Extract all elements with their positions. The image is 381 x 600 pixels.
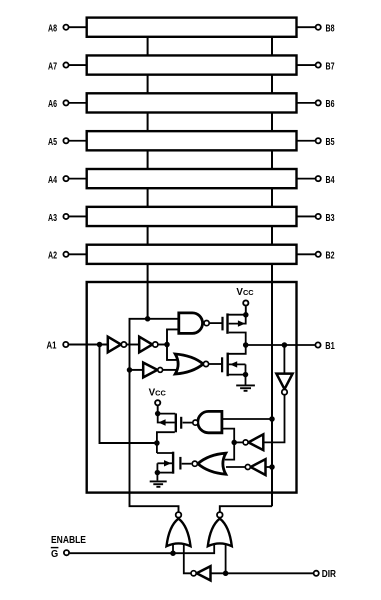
UPPER GATE PAIR (B1 drive)	[209, 323, 222, 364]
terminal B7	[316, 62, 321, 67]
transistor Q4 bulk lead	[157, 462, 172, 464]
transistor Q2 drain lead	[229, 345, 246, 354]
TRANSISTOR Q4 (NMOS to GND, A1 side, mirrored)	[157, 452, 181, 481]
inverter U4 (B1 tap, pointing down)	[264, 345, 293, 442]
junction U6 output node	[231, 440, 237, 446]
wire A6 stub	[69, 102, 86, 104]
nor U2	[175, 354, 208, 374]
wire inter-buffer A1a-A1b	[127, 344, 139, 346]
terminal DIR	[314, 571, 319, 576]
inverter U9 (DIR, points left)	[191, 566, 211, 580]
wire left enable line (NAND top input / inverter feed)	[130, 319, 180, 512]
nor U7 (mirrored, points left)	[192, 453, 226, 474]
terminal A8	[63, 25, 68, 30]
wire NAND U5 top input	[222, 418, 272, 420]
terminal B5	[316, 138, 321, 143]
channel box A6-B6	[87, 93, 297, 112]
inverter U6 (points left)	[243, 434, 263, 450]
wire NOR U7 output to Q4 gate	[182, 463, 192, 465]
svg-text:A6: A6	[48, 99, 57, 110]
junction B1 output node	[243, 342, 249, 348]
LOWER GATE PAIR (A1 drive)	[182, 419, 272, 467]
transistor Q1 bulk arrow	[238, 320, 245, 326]
wire B8 stub	[297, 26, 315, 28]
svg-text:B1: B1	[325, 341, 335, 352]
transistor Q3 gate bar	[180, 417, 182, 429]
terminal A5	[63, 138, 68, 143]
transistor Q2 bulk arrow	[230, 361, 237, 367]
svg-text:ENABLE: ENABLE	[51, 535, 86, 546]
transistor Q4 gate bar	[179, 457, 181, 470]
inverter U4 body	[276, 374, 292, 390]
wire NOR G2 right input stub	[225, 545, 227, 573]
terminal A4	[63, 176, 68, 181]
transistor Q2 gate bar	[221, 357, 223, 372]
TRANSISTOR Q3 (PMOS to VCC, A1 side, mirrored)	[157, 413, 181, 453]
INTERNAL WIRES	[69, 319, 272, 512]
channel box A7-B7	[87, 55, 297, 74]
nand U1	[179, 313, 209, 334]
channel box A2-B2	[87, 245, 297, 264]
wire inverter U6 output to U5/U7 branch	[234, 441, 243, 443]
transistor Q4 channel bar	[172, 452, 174, 474]
wire inverter U8 output to U7 input	[226, 466, 245, 468]
terminal A6	[63, 100, 68, 105]
wire B2 stub	[297, 253, 315, 255]
svg-text:B2: B2	[326, 251, 335, 262]
BOTTOM ENABLE SECTION	[70, 545, 314, 573]
detail cell outer box	[87, 282, 297, 493]
junction Q4 source	[155, 470, 161, 476]
wire B6 stub	[297, 102, 315, 104]
wire buffered-A branch to NAND/NOR inputs	[167, 329, 179, 360]
transistor Q1 gate bar	[221, 317, 223, 331]
svg-text:A3: A3	[48, 213, 57, 224]
transistor Q2 channel bar	[226, 353, 228, 377]
wire DIR input run	[211, 572, 314, 574]
transistor Q3 source lead	[158, 413, 176, 415]
wire U4 input	[283, 345, 285, 373]
wire G-bar input run	[70, 545, 215, 553]
transistor Q4 bulk arrow	[164, 460, 171, 466]
transistor Q3 drain lead	[157, 432, 175, 453]
svg-text:VCC: VCC	[236, 287, 254, 298]
terminal A7	[63, 62, 68, 67]
terminal B6	[316, 100, 321, 105]
svg-text:A4: A4	[48, 175, 57, 186]
ground (B1 output stage)	[236, 385, 255, 390]
wire: B-side enable bus (vertical, right)	[271, 30, 273, 506]
svg-text:DIR: DIR	[322, 569, 336, 580]
wire A3 stub	[69, 215, 86, 217]
transistor Q1 bulk lead	[229, 315, 246, 324]
wire Q2 source to ground	[245, 364, 247, 384]
junction left enable at bus	[145, 316, 151, 322]
wire NOR G1 left input stub	[172, 545, 174, 553]
wire NAND U5 output to Q3 gate	[183, 422, 193, 424]
transistor Q2 source lead	[229, 374, 246, 376]
terminal G-bar	[64, 550, 69, 555]
junction A1 feedback	[97, 342, 103, 348]
junction DIR at NOR G2	[223, 571, 229, 577]
TERMINALS	[63, 25, 320, 257]
wire NAND U5 bottom input branch	[222, 429, 234, 460]
junction U8 input at bus	[269, 464, 275, 470]
wire NOR G1 right input (from U9 output)	[184, 545, 191, 573]
transistor Q4 drain lead	[157, 452, 173, 454]
transistor Q2 bulk lead	[229, 363, 246, 365]
inverter U3 (feeds NOR U2)	[143, 363, 162, 378]
inverter U8 (points left)	[245, 459, 265, 475]
terminal B3	[316, 214, 321, 219]
svg-text:A2: A2	[48, 251, 57, 262]
junction left enable at inverter U3	[127, 367, 133, 373]
inverter U10 (A1 buffer 1)	[108, 337, 127, 353]
channel box A4-B4	[87, 169, 297, 188]
svg-text:A5: A5	[48, 137, 57, 148]
nor G2 (enable gate, points up)	[208, 512, 232, 546]
transistor Q3 bulk lead	[158, 414, 175, 423]
wire inverter U8 input	[266, 466, 272, 468]
terminal B8	[316, 25, 321, 30]
terminal A1	[63, 342, 68, 347]
wire NAND U1 output to Q1 gate	[210, 322, 222, 324]
wire A1 feedback (down-left)	[100, 345, 158, 444]
junction buffered A node	[164, 342, 170, 348]
svg-text:A1: A1	[47, 341, 57, 352]
wire B4 stub	[297, 178, 315, 180]
VCC symbol (B1 side)	[236, 287, 254, 315]
svg-text:A7: A7	[48, 61, 57, 72]
wire U4 output (down then left)	[264, 395, 285, 442]
terminal B4	[316, 176, 321, 181]
wire B7 stub	[297, 64, 315, 66]
wire A4 stub	[69, 178, 86, 180]
ground (A1 output stage)	[150, 481, 167, 486]
channel box A5-B5	[87, 131, 297, 150]
transistor Q1 channel bar	[226, 313, 228, 333]
overbar of G	[51, 547, 59, 549]
terminal A2	[63, 252, 68, 257]
wire buffer A1b output to node	[158, 344, 167, 346]
wire Q4 source to ground	[156, 463, 158, 480]
junction Q2 source	[243, 372, 249, 378]
svg-text:G: G	[51, 549, 58, 560]
transistor Q4 source lead	[157, 472, 172, 474]
wire B3 stub	[297, 215, 315, 217]
junction VCC node (B1 side)	[243, 312, 249, 318]
junction dots group	[97, 316, 170, 373]
inverter U4 bubble	[282, 389, 287, 394]
channel box A3-B3	[87, 207, 297, 226]
transistor Q1 source lead	[228, 314, 246, 316]
nand U5 (mirrored, points left)	[193, 411, 222, 432]
nor G1 (enable gate, points up)	[167, 512, 191, 546]
node B1: output wire	[246, 344, 315, 346]
svg-text:B7: B7	[326, 61, 335, 72]
VCC symbol (A1 side)	[149, 387, 167, 413]
svg-text:B3: B3	[326, 213, 335, 224]
junction G-bar at NOR G1	[170, 550, 176, 556]
junction B1 tap to inverter U4	[282, 342, 288, 348]
TRANSISTOR Q2 (NMOS to GND, B1 side)	[222, 345, 246, 385]
TRANSISTOR Q1 (PMOS to VCC, B1 side)	[223, 313, 246, 345]
wire inverter U3 output to NOR input	[163, 369, 179, 371]
junction VCC node (A1 side)	[155, 411, 161, 417]
svg-text:B5: B5	[326, 137, 335, 148]
wire A1 input	[69, 344, 108, 346]
svg-text:B4: B4	[326, 175, 335, 186]
svg-text:VCC: VCC	[149, 387, 167, 398]
transistor Q3 bulk arrow	[158, 419, 165, 425]
transistor Q1 drain lead	[229, 333, 246, 346]
wire: A-side enable bus (vertical, left)	[147, 30, 149, 319]
terminal B2	[316, 252, 321, 257]
channel box A8-B8	[87, 18, 297, 37]
wire B5 stub	[297, 140, 315, 142]
wire A8 stub	[69, 26, 86, 28]
junction U5/U7 branch at bus	[269, 416, 275, 422]
transistor Q3 channel bar	[175, 413, 177, 432]
terminal A3	[63, 214, 68, 219]
terminal B1	[315, 342, 320, 347]
wire inverter U3 input	[130, 369, 144, 371]
junction A1 output node	[154, 440, 160, 446]
svg-text:B6: B6	[326, 99, 335, 110]
wire right enable bottom run	[220, 506, 272, 512]
wire NOR U2 output to Q2 gate	[209, 363, 221, 365]
wire A2 stub	[69, 253, 86, 255]
inverter U11 (A1 buffer 2)	[139, 337, 158, 353]
wire A5 stub	[69, 140, 86, 142]
svg-text:A8: A8	[48, 24, 57, 35]
svg-text:B8: B8	[326, 24, 335, 35]
wire A7 stub	[69, 64, 86, 66]
